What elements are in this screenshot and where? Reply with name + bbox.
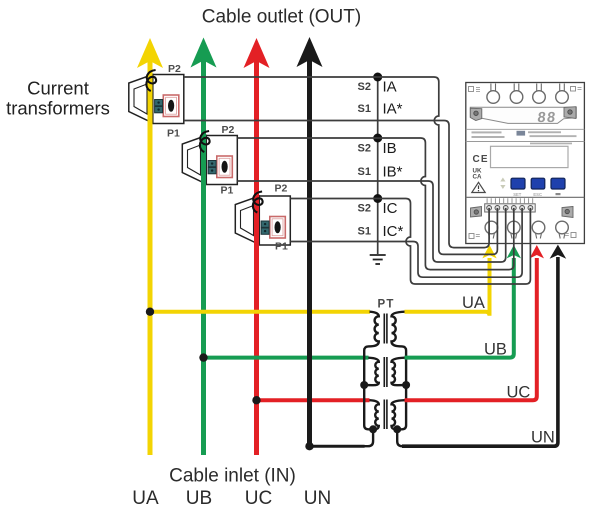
svg-text:UN: UN <box>304 488 331 509</box>
meter bottom big terminals <box>485 221 568 238</box>
arrow phase A outlet <box>137 38 163 68</box>
svg-text:PT: PT <box>378 299 395 311</box>
svg-text:P1: P1 <box>221 185 234 197</box>
PT core lines T3 <box>383 400 385 430</box>
junction dot PT left T2 <box>360 381 368 389</box>
PT T2 right winding <box>392 358 407 386</box>
wire UA branch (yellow horizontal to PT) <box>150 310 370 314</box>
svg-text:Cable inlet (IN): Cable inlet (IN) <box>169 466 296 487</box>
arrow phase C outlet <box>244 38 270 68</box>
CT3 primary curl <box>253 192 263 213</box>
power meter <box>466 83 585 244</box>
wire phase B (green vertical) <box>201 57 206 455</box>
meter warning triangle <box>472 182 485 192</box>
meter bottom corner marks <box>469 234 474 239</box>
svg-text:IA*: IA* <box>383 101 403 118</box>
svg-text:UC: UC <box>245 488 272 509</box>
arrow UC into meter <box>530 245 544 258</box>
svg-text:Current: Current <box>27 78 89 99</box>
meter body <box>466 83 585 244</box>
svg-text:S1: S1 <box>358 103 371 115</box>
wire UA out (yellow PT to meter) <box>405 258 490 316</box>
svg-text:Cable outlet (OUT): Cable outlet (OUT) <box>202 7 361 28</box>
wire IC (CT3 S2 to meter terminal) <box>290 199 530 285</box>
svg-text:transformers: transformers <box>6 98 110 119</box>
meter top corner marks <box>469 87 474 92</box>
svg-text:P1: P1 <box>167 128 180 140</box>
svg-text:P1: P1 <box>275 241 288 253</box>
svg-text:SET: SET <box>513 192 522 197</box>
svg-text:IB*: IB* <box>383 164 403 181</box>
meter LCD <box>491 146 569 167</box>
wire UN branch left (black horizontal from phase N to PT) <box>310 445 365 448</box>
svg-text:UA: UA <box>462 294 485 312</box>
current transformer CT3 (phase C) <box>235 196 290 245</box>
arrow phase N outlet <box>297 37 323 67</box>
meter button SET <box>511 178 525 189</box>
PT T2 left winding <box>364 358 379 386</box>
arrow UN into meter <box>550 245 567 259</box>
svg-text:ESC: ESC <box>533 192 542 197</box>
PT T3 left winding <box>370 400 379 429</box>
PT left star point drop to UN <box>364 429 373 446</box>
svg-text:CA: CA <box>473 174 482 181</box>
arrow UB into meter <box>507 245 521 258</box>
wire UB out (green PT to meter) <box>405 258 514 358</box>
PT right star point drop to UN <box>397 429 406 446</box>
svg-text:S2: S2 <box>358 143 371 155</box>
svg-text:IC*: IC* <box>383 223 404 240</box>
junction dot phase B / UB <box>199 353 207 361</box>
arrow phase B outlet <box>191 38 217 68</box>
wire UC branch (red horizontal to PT) <box>257 398 370 402</box>
svg-text:UB: UB <box>484 341 507 359</box>
svg-text:IA: IA <box>383 79 397 96</box>
wire UC out (red PT to meter) <box>405 258 537 400</box>
label Current transformers <box>6 78 110 119</box>
junction dot phase A / UA <box>146 308 154 316</box>
svg-text:CE: CE <box>473 154 489 165</box>
wire UB branch (green horizontal to PT) <box>204 356 369 360</box>
PT core lines T1 <box>383 314 385 344</box>
CT2 primary curl <box>200 131 210 152</box>
svg-text:UN: UN <box>531 429 555 447</box>
PT core lines T2 <box>383 357 385 387</box>
svg-text:88: 88 <box>536 110 557 126</box>
meter bottom clips <box>471 207 482 218</box>
wire phase C (red vertical) <box>254 58 259 455</box>
wire IB (CT2 S2 to meter terminal) <box>237 138 514 270</box>
PT T1 right winding + right bus <box>392 312 407 430</box>
current transformer CT1 (phase A) <box>129 75 184 124</box>
svg-text:S1: S1 <box>358 166 371 178</box>
wire S2 common bus to ground <box>377 77 379 254</box>
svg-text:P2: P2 <box>168 63 181 75</box>
wire phase A through CT1 <box>148 72 153 126</box>
svg-text:UB: UB <box>186 488 212 509</box>
wire IA* (CT1 S1 to meter terminal) <box>184 121 489 248</box>
meter top terminal circles <box>487 84 568 104</box>
PT T1 left winding + left bus <box>364 312 379 430</box>
junction dot PT right T3 <box>393 425 401 433</box>
wire IB* (CT2 S1 to meter terminal) <box>237 181 505 262</box>
meter S-terminal screws <box>487 206 533 211</box>
wire phase N (black vertical) <box>307 57 312 448</box>
junction dot PT left T3 <box>369 425 377 433</box>
wire IA (CT1 S2 to meter terminal) <box>184 77 498 254</box>
meter scroll indicator <box>500 178 505 182</box>
potential transformer assembly <box>360 312 410 447</box>
wire UN out (black PT to meter) <box>402 257 558 446</box>
svg-text:P2: P2 <box>275 183 288 195</box>
svg-text:S1: S1 <box>358 226 371 238</box>
junction dot IC bus <box>373 194 382 203</box>
junction dot IA bus <box>373 73 382 82</box>
svg-text:S2: S2 <box>358 203 371 215</box>
wire phase B through CT2 <box>201 133 206 187</box>
current transformer CT2 (phase B) <box>182 136 237 185</box>
junction dot phase N / UN <box>305 442 313 450</box>
svg-text:S2: S2 <box>358 81 371 93</box>
svg-text:IC: IC <box>383 200 398 217</box>
wire IC* (CT3 S1 to meter terminal) <box>290 208 522 277</box>
junction dot phase C / UC <box>252 396 260 404</box>
wire phase A (yellow vertical) <box>148 58 153 455</box>
meter bottom section divider <box>466 196 585 198</box>
arrow UA into meter <box>482 245 496 258</box>
junction dot IB bus <box>373 134 382 143</box>
meter mid recessed panel <box>470 107 576 123</box>
wire phase C through CT3 <box>254 194 259 248</box>
meter S-terminal strip <box>485 204 536 212</box>
PT T3 right winding <box>392 400 405 429</box>
meter button ESC <box>531 178 545 189</box>
meter button enter <box>551 178 565 189</box>
ground symbol <box>370 255 386 264</box>
svg-text:IB: IB <box>383 140 397 157</box>
CT1 primary curl <box>146 70 156 91</box>
junction dot PT right T2 <box>402 381 410 389</box>
svg-text:UC: UC <box>507 384 531 402</box>
meter label band <box>466 128 585 130</box>
svg-text:UA: UA <box>132 488 159 509</box>
svg-text:P2: P2 <box>222 124 235 136</box>
